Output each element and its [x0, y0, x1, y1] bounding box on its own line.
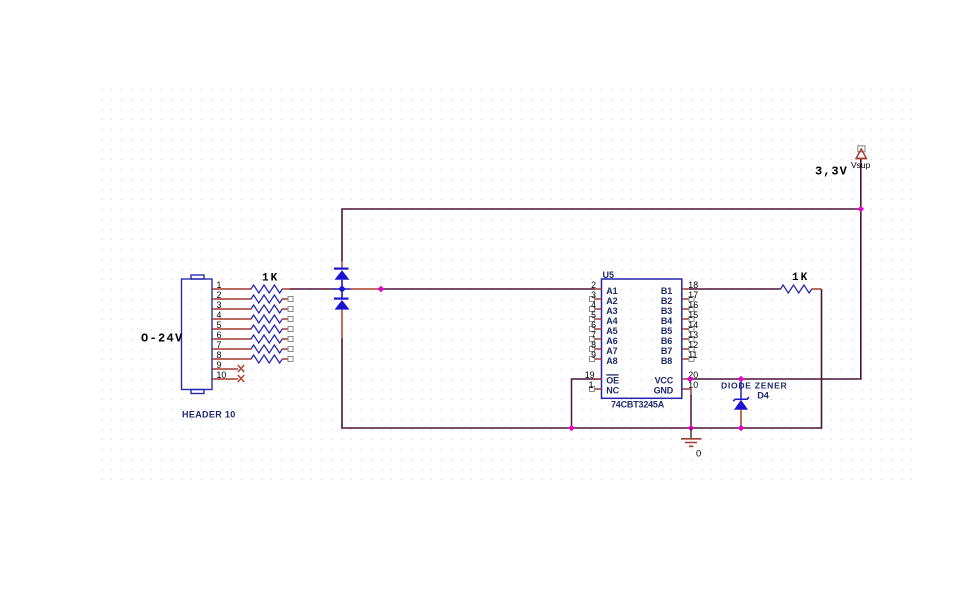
svg-text:4: 4	[217, 310, 222, 320]
wire U5 B1 to resistor R9	[689, 288, 781, 290]
svg-text:11: 11	[688, 350, 697, 360]
U5 pin 7 A6	[590, 330, 618, 346]
header pin 10 stub (no-connect)	[212, 378, 238, 380]
header pin 6 stub	[212, 338, 251, 340]
svg-text:2: 2	[217, 290, 222, 300]
svg-text:12: 12	[688, 340, 698, 350]
svg-text:1: 1	[217, 280, 222, 290]
svg-text:B1: B1	[661, 286, 672, 296]
resistor R7 1K	[251, 345, 293, 353]
svg-text:9: 9	[591, 350, 596, 360]
node junction at VCC pin (690,379)	[687, 376, 694, 383]
svg-text:8: 8	[591, 340, 596, 350]
svg-text:1: 1	[589, 380, 594, 390]
node junction at diode stack (342,289)	[338, 285, 345, 292]
node junction on main wire (381,289)	[378, 286, 385, 293]
no-connect X mark pin 10	[238, 375, 244, 382]
U5 pin 5 A4	[590, 310, 618, 326]
resistor R5 1K	[251, 325, 293, 333]
U5 pin 8 A7	[590, 340, 618, 356]
U5 pin 15 B4	[661, 310, 698, 326]
node junction zener bottom (741,428)	[738, 425, 745, 432]
svg-text:B6: B6	[661, 336, 672, 346]
svg-text:5: 5	[217, 320, 222, 330]
svg-text:A1: A1	[606, 286, 617, 296]
svg-text:7: 7	[591, 330, 596, 340]
svg-text:3: 3	[591, 290, 596, 300]
resistor R6 1K	[251, 335, 293, 343]
connector J1 HEADER 10 body	[182, 275, 213, 394]
svg-text:19: 19	[585, 370, 595, 380]
svg-text:B4: B4	[661, 316, 672, 326]
resistor R2 1K	[251, 295, 293, 303]
svg-text:NC: NC	[606, 386, 619, 396]
svg-text:3: 3	[217, 300, 222, 310]
U5 pin 20 VCC	[655, 370, 699, 386]
svg-text:17: 17	[688, 290, 698, 300]
svg-text:14: 14	[688, 320, 698, 330]
resistor R4 1K	[251, 315, 293, 323]
U5 pin 6 A5	[590, 320, 618, 336]
header pin 3 stub	[212, 308, 251, 310]
svg-text:O-24V: O-24V	[141, 332, 184, 346]
header pin 1 stub	[212, 288, 251, 290]
U5 pin 18 B1	[661, 280, 698, 296]
svg-text:3,3V: 3,3V	[815, 165, 848, 179]
U5 pin 1 NC	[589, 380, 620, 396]
diode D1 (top, to 3.3V rail)	[334, 261, 350, 289]
zener diode D4	[733, 379, 749, 427]
ground symbol 0	[681, 428, 701, 446]
U5 pin 14 B5	[661, 320, 698, 336]
svg-text:A8: A8	[606, 356, 617, 366]
svg-text:0: 0	[696, 449, 701, 460]
svg-text:74CBT3245A: 74CBT3245A	[611, 400, 665, 410]
wire top net: diode stack to Vsup rail	[342, 209, 861, 261]
header pin 5 stub	[212, 328, 251, 330]
node junction GND drop (691,428)	[688, 425, 695, 432]
svg-text:A4: A4	[606, 316, 617, 326]
svg-text:B3: B3	[661, 306, 672, 316]
svg-text:4: 4	[591, 300, 596, 310]
svg-text:B7: B7	[661, 346, 672, 356]
svg-text:OE: OE	[606, 376, 619, 386]
U5 pin 16 B3	[661, 300, 698, 316]
header pin 2 stub	[212, 298, 251, 300]
svg-text:B8: B8	[661, 356, 672, 366]
wire OE pin 19 drop to bottom net	[572, 379, 602, 428]
node junction OE drop (571.5,428)	[568, 425, 575, 432]
svg-text:A7: A7	[606, 346, 617, 356]
svg-text:U5: U5	[603, 270, 615, 280]
U5 pin 2 A1	[591, 280, 618, 296]
svg-text:B2: B2	[661, 296, 672, 306]
wire main net: R1 to U5 pin A1	[290, 288, 596, 290]
svg-text:8: 8	[217, 350, 222, 360]
node junction zener top (741,379)	[738, 376, 745, 383]
svg-text:18: 18	[688, 280, 698, 290]
U5 pin 12 B7	[661, 340, 698, 356]
header pin 9 stub (no-connect)	[212, 368, 238, 370]
svg-text:9: 9	[217, 360, 222, 370]
svg-text:7: 7	[217, 340, 222, 350]
node junction Vsup corner (860.8,209)	[858, 206, 865, 213]
svg-text:6: 6	[591, 320, 596, 330]
header pin 4 stub	[212, 318, 251, 320]
svg-text:1K: 1K	[262, 273, 279, 285]
svg-text:GND: GND	[654, 386, 674, 396]
resistor R1 1K	[251, 285, 291, 293]
svg-text:B5: B5	[661, 326, 672, 336]
U5 pin 10 GND	[654, 380, 699, 396]
svg-text:Vsup: Vsup	[851, 160, 871, 170]
op-amp/IC U5 74CBT3245A body	[602, 279, 682, 398]
svg-text:16: 16	[688, 300, 698, 310]
diode D2 (bottom, to bottom net)	[334, 289, 350, 339]
U5 pin 19 OE	[585, 370, 619, 386]
svg-text:10: 10	[217, 370, 227, 380]
no-connect X mark pin 9	[238, 365, 244, 372]
U5 pin 17 B2	[661, 290, 698, 306]
svg-text:D4: D4	[757, 390, 769, 400]
svg-text:A6: A6	[606, 336, 617, 346]
resistor R3 1K	[251, 305, 293, 313]
wire Vsup vertical rail	[690, 159, 861, 380]
svg-text:A3: A3	[606, 306, 617, 316]
U5 pin 4 A3	[590, 300, 618, 316]
U5 pin 13 B6	[661, 330, 698, 346]
U5 pin 9 A8	[590, 350, 618, 366]
resistor R8 1K	[251, 355, 293, 363]
svg-text:A2: A2	[606, 296, 617, 306]
wire bottom net: diode anode / OE / GND / zener / R9	[342, 289, 822, 428]
header pin 7 stub	[212, 348, 251, 350]
svg-text:6: 6	[217, 330, 222, 340]
svg-text:13: 13	[688, 330, 698, 340]
svg-text:HEADER 10: HEADER 10	[182, 409, 236, 419]
svg-text:1K: 1K	[792, 272, 809, 284]
svg-text:5: 5	[591, 310, 596, 320]
svg-text:15: 15	[688, 310, 698, 320]
svg-text:VCC: VCC	[655, 376, 674, 386]
svg-text:2: 2	[591, 280, 596, 290]
U5 pin 11 B8	[661, 350, 698, 366]
resistor R9 1K (right)	[781, 285, 822, 293]
wire GND pin 10 drop to bottom net	[682, 389, 691, 396]
U5 pin 3 A2	[590, 290, 618, 306]
header pin 8 stub	[212, 358, 251, 360]
svg-text:DIODE ZENER: DIODE ZENER	[721, 380, 788, 390]
power symbol Vsup	[856, 146, 866, 159]
svg-text:A5: A5	[606, 326, 617, 336]
